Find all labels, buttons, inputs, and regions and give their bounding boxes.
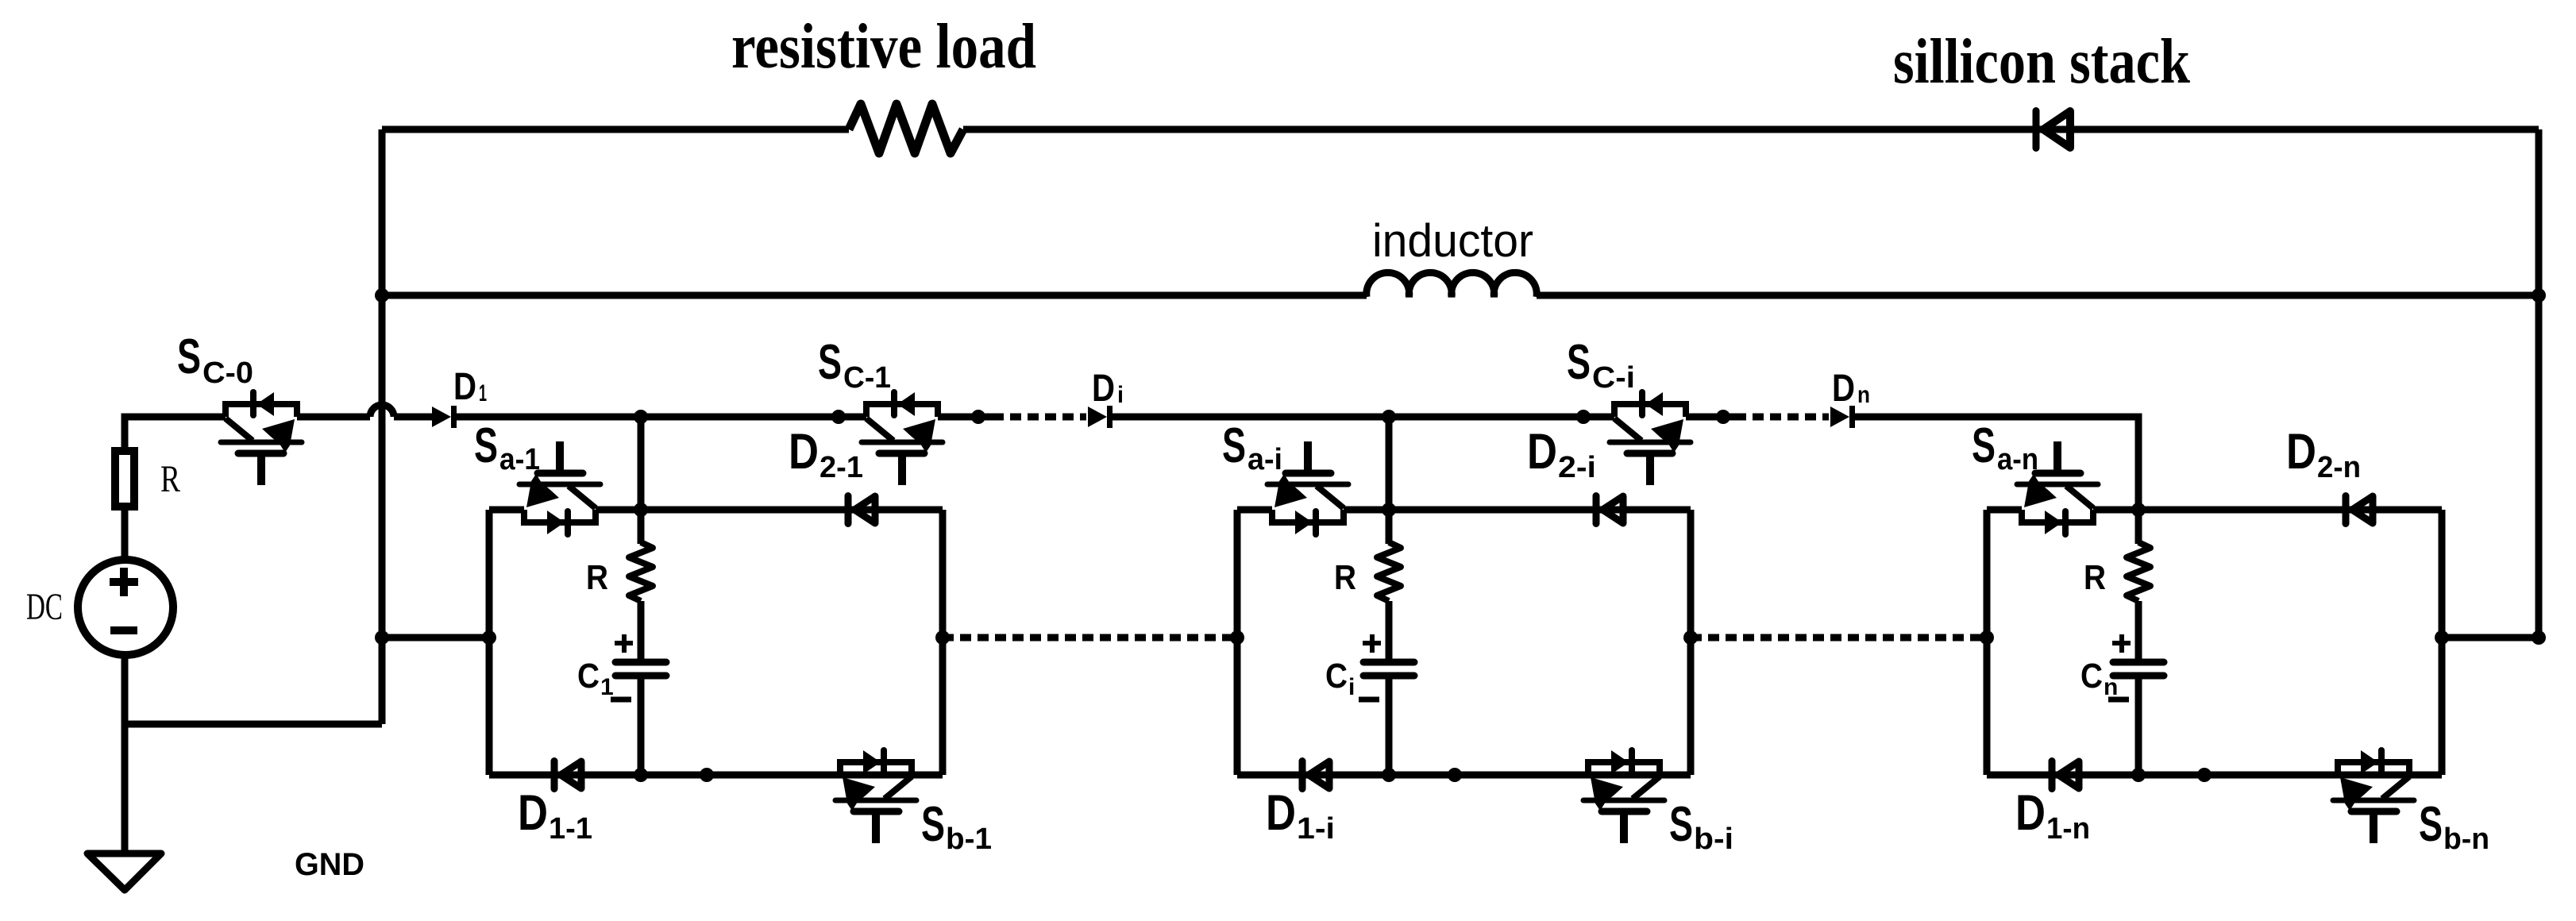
wire: cell n left edge xyxy=(1984,510,1991,775)
svg-text:S: S xyxy=(1222,418,1246,473)
svg-text:D: D xyxy=(789,424,819,480)
wire: cell 1 bottom edge xyxy=(489,772,943,779)
svg-text:S: S xyxy=(177,329,201,384)
svg-text:2-1: 2-1 xyxy=(819,451,863,484)
wire: cell1 vertical feed xyxy=(638,417,645,510)
svg-text:b-i: b-i xyxy=(1694,823,1733,856)
wire: S_C-i to dashed xyxy=(1686,414,1735,421)
svg-text:S: S xyxy=(921,797,945,852)
wire: Dn to cell n (corner down) xyxy=(1855,417,2138,510)
node: cell1 feed xyxy=(634,410,648,424)
wire: inductor net, left segment xyxy=(382,292,1367,299)
svg-text:a-1: a-1 xyxy=(499,443,540,476)
wire: R to C xyxy=(2135,601,2142,660)
node xyxy=(935,630,950,645)
diode D_1-1 xyxy=(554,761,581,789)
capacitor minus mark xyxy=(2108,697,2129,703)
svg-text:C-i: C-i xyxy=(1592,361,1635,395)
switch S_C-1 xyxy=(862,392,943,485)
capacitor C_i xyxy=(1363,659,1414,666)
node: bottom aux xyxy=(700,768,714,782)
svg-text:DC: DC xyxy=(26,586,63,628)
svg-text:C: C xyxy=(577,657,600,696)
capacitor plus mark xyxy=(615,641,633,645)
dashed wire: cell1 to cell i xyxy=(943,634,1237,642)
svg-text:D: D xyxy=(518,785,548,841)
svg-text:S: S xyxy=(1669,797,1693,852)
switch S_b-n xyxy=(2333,750,2414,843)
wire: inductor net, right segment xyxy=(1537,292,2539,299)
svg-text:C-0: C-0 xyxy=(202,356,253,390)
capacitor minus mark xyxy=(1359,697,1379,703)
wire: C to bottom edge xyxy=(2135,678,2142,775)
diode Di xyxy=(1088,406,1110,428)
diode: sillicon stack xyxy=(2036,111,2070,148)
svg-text:D: D xyxy=(1832,368,1855,410)
node: branch top xyxy=(2131,503,2146,517)
resistor R (rect) xyxy=(115,451,134,507)
svg-text:1-1: 1-1 xyxy=(549,812,592,846)
svg-text:b-1: b-1 xyxy=(946,823,992,856)
wire: cell 1 top edge right xyxy=(596,507,943,514)
diode D_1-i xyxy=(1302,761,1329,789)
diode D_2-i xyxy=(1596,496,1623,524)
wire: cell i left edge xyxy=(1234,510,1241,775)
node xyxy=(482,630,496,645)
wire: DC to GND xyxy=(121,655,129,854)
resistor R cell 1 xyxy=(638,510,645,544)
wire: DC to S_C-0 xyxy=(125,417,226,452)
DC source circle xyxy=(78,560,173,655)
node: right of S_C-i xyxy=(1716,410,1730,424)
svg-text:S: S xyxy=(1567,335,1591,390)
node: branch bottom xyxy=(2131,768,2146,782)
switch S_C-0 xyxy=(221,392,302,485)
svg-text:D: D xyxy=(2015,785,2046,841)
dashed wire: cell i to cell n xyxy=(1691,634,1987,642)
svg-text:2-i: 2-i xyxy=(1558,451,1596,484)
wire: cell i bottom edge xyxy=(1237,772,1691,779)
wire: cell i vertical feed xyxy=(1386,417,1393,510)
wire: cell i top edge right xyxy=(1344,507,1691,514)
wire: cell n to right vertical xyxy=(2442,634,2539,642)
diode Dn xyxy=(1830,406,1853,428)
wire: hop to D1 xyxy=(394,414,432,421)
svg-text:S: S xyxy=(818,335,842,390)
wire: Di to S_C-i xyxy=(1113,414,1614,421)
wire: cell i top edge left stub xyxy=(1237,507,1272,514)
node: branch top xyxy=(1382,503,1396,517)
wire: top resistive-load net, left segment xyxy=(382,126,849,133)
ground symbol xyxy=(87,854,161,890)
svg-text:1: 1 xyxy=(479,380,487,407)
svg-text:D: D xyxy=(1092,368,1115,410)
wire: S_C-1 to dashed xyxy=(938,414,993,421)
svg-text:1-n: 1-n xyxy=(2046,812,2090,846)
wire: cell n right edge xyxy=(2439,510,2446,775)
node: inductor/right-vertical junction xyxy=(2532,288,2546,303)
switch S_C-i xyxy=(1610,392,1691,485)
node xyxy=(2435,630,2449,645)
wire: R to C xyxy=(638,601,645,660)
svg-text:R: R xyxy=(2084,558,2106,597)
dashed wire to D_i xyxy=(993,414,1086,421)
dashed wire to Dn xyxy=(1735,414,1829,421)
capacitor plus mark xyxy=(1363,641,1381,645)
wire: D1 to S_C-1 xyxy=(457,414,866,421)
svg-text:S: S xyxy=(2419,797,2443,852)
svg-text:i: i xyxy=(1348,674,1355,700)
svg-text:D: D xyxy=(1266,785,1296,841)
svg-text:D: D xyxy=(2286,424,2316,480)
switch S_b-1 xyxy=(835,750,916,843)
DC minus xyxy=(110,626,137,634)
diode D1 xyxy=(432,406,454,428)
wire: left vertical to cell1 xyxy=(382,634,489,642)
wire: S_C-0 to hop xyxy=(297,414,370,421)
svg-text:n: n xyxy=(2104,674,2118,700)
svg-text:1-i: 1-i xyxy=(1297,812,1335,846)
svg-text:2-n: 2-n xyxy=(2317,451,2361,484)
capacitor C_1 xyxy=(615,659,666,666)
capacitor C_n xyxy=(2113,659,2164,666)
svg-text:R: R xyxy=(160,458,180,500)
node xyxy=(1980,630,1994,645)
switch S_a-1 xyxy=(519,441,600,534)
svg-text:S: S xyxy=(474,418,498,473)
wire: C to bottom edge xyxy=(1386,678,1393,775)
svg-text:a-i: a-i xyxy=(1248,443,1282,476)
wire: cell 1 right edge xyxy=(939,510,947,775)
wire: cell i right edge xyxy=(1687,510,1695,775)
wire: cell 1 top edge left stub xyxy=(489,507,524,514)
capacitor minus mark xyxy=(611,697,631,703)
node xyxy=(2532,630,2546,645)
diode D_1-n xyxy=(2052,761,2079,789)
svg-text:C-1: C-1 xyxy=(843,361,891,395)
svg-text:b-n: b-n xyxy=(2443,823,2489,856)
resistor R cell i xyxy=(1386,510,1393,544)
node: cell i feed xyxy=(1382,410,1396,424)
inductor xyxy=(1367,272,1537,297)
wire: cell n bottom edge xyxy=(1987,772,2442,779)
svg-text:inductor: inductor xyxy=(1372,215,1533,267)
wire: left long vertical xyxy=(379,129,386,724)
switch S_a-n xyxy=(2017,441,2098,534)
svg-text:resistive load: resistive load xyxy=(731,12,1036,82)
svg-text:i: i xyxy=(1117,382,1124,408)
wire hop over left vertical xyxy=(370,405,394,417)
svg-text:R: R xyxy=(1334,558,1356,597)
switch S_b-i xyxy=(1583,750,1664,843)
node: left of S_C-1 xyxy=(831,410,846,424)
DC plus xyxy=(110,578,138,586)
wire: right long vertical xyxy=(2536,129,2543,638)
wire: cell n top edge left stub xyxy=(1987,507,2022,514)
svg-text:n: n xyxy=(1857,382,1870,408)
svg-text:a-n: a-n xyxy=(1997,443,2038,476)
node: branch top xyxy=(634,503,648,517)
wire: R to DC source xyxy=(121,507,129,561)
capacitor plus mark xyxy=(2112,641,2131,645)
node xyxy=(1230,630,1244,645)
wire: cell n top edge right xyxy=(2093,507,2442,514)
node xyxy=(375,630,389,645)
node: right of S_C-1 xyxy=(971,410,985,424)
node: branch bottom xyxy=(1382,768,1396,782)
switch S_a-i xyxy=(1267,441,1348,534)
wire: top net, right segment xyxy=(963,126,2539,133)
svg-text:D: D xyxy=(453,366,476,408)
node xyxy=(1683,630,1698,645)
wire: R to C xyxy=(1386,601,1393,660)
node: left of S_C-i xyxy=(1576,410,1591,424)
resistor: resistive load xyxy=(849,104,963,153)
node: branch bottom xyxy=(634,768,648,782)
svg-text:D: D xyxy=(1527,424,1557,480)
wire: bottom return xyxy=(125,721,382,728)
svg-text:1: 1 xyxy=(600,674,614,700)
svg-text:sillicon stack: sillicon stack xyxy=(1893,27,2190,97)
svg-text:S: S xyxy=(1972,418,1996,473)
wire: cell 1 left edge xyxy=(486,510,493,775)
diode D_2-n xyxy=(2346,496,2373,524)
svg-text:GND: GND xyxy=(295,847,364,882)
svg-text:R: R xyxy=(586,558,608,597)
svg-text:C: C xyxy=(2080,657,2103,696)
node: inductor/left-vertical junction xyxy=(375,288,389,303)
svg-text:C: C xyxy=(1325,657,1348,696)
diode D_2-1 xyxy=(848,496,875,524)
resistor R cell n xyxy=(2135,510,2142,544)
node: bottom aux xyxy=(2197,768,2212,782)
wire: C to bottom edge xyxy=(638,678,645,775)
node: bottom aux xyxy=(1448,768,1462,782)
